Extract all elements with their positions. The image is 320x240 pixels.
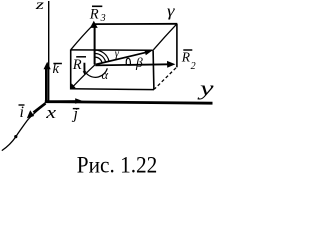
box edge BBR-FBR dashed — [154, 68, 176, 89]
unit vector j arrowhead — [75, 98, 83, 104]
svg-text:2: 2 — [191, 61, 196, 72]
beta angle mark — [126, 58, 130, 65]
svg-text:β: β — [135, 55, 143, 70]
svg-text:α: α — [102, 68, 109, 82]
j label bar — [73, 108, 80, 110]
svg-text:R: R — [181, 49, 191, 64]
box back top edge — [93, 23, 177, 25]
R1 label bar — [76, 56, 86, 58]
vector R1 line (BBL to FBL) — [72, 65, 95, 88]
vector R main diagonal shaft — [96, 52, 147, 64]
svg-text:y: y — [197, 76, 214, 100]
vector R arrowhead — [144, 50, 152, 56]
box front bottom edge — [70, 88, 154, 91]
vector R3 shaft — [94, 26, 96, 65]
vector R2 arrowhead — [167, 61, 175, 68]
svg-text:γ: γ — [167, 3, 175, 20]
R1 subscript arrow tip — [83, 71, 87, 75]
svg-text:x: x — [45, 103, 57, 122]
i label bar — [19, 104, 25, 106]
svg-text:j: j — [72, 106, 79, 123]
svg-text:i: i — [20, 104, 24, 121]
R3 label bar — [92, 5, 102, 7]
R1 subscript leader stroke — [83, 63, 85, 72]
svg-text:R: R — [89, 7, 99, 23]
z axis — [48, 1, 50, 102]
alpha angle arc — [86, 68, 107, 77]
box front right edge — [152, 50, 155, 89]
x axis — [2, 104, 46, 151]
R2 label bar — [183, 49, 192, 51]
box front left edge — [70, 50, 72, 89]
box edge BTL-FTL — [71, 24, 94, 49]
vector R3 arrowhead — [90, 21, 98, 28]
unit vector i shaft — [34, 103, 46, 112]
unit vector i arrowhead — [27, 110, 34, 118]
y axis — [45, 102, 213, 104]
unit vector k shaft — [45, 68, 48, 103]
box back right edge — [176, 24, 178, 68]
box edge BTR-FTR — [153, 24, 176, 50]
gamma angle arc outer — [95, 50, 109, 61]
k label bar — [53, 63, 62, 65]
unit vector k arrowhead — [44, 62, 51, 70]
vector R2 shaft — [95, 64, 168, 65]
box front top edge — [70, 49, 152, 51]
gamma angle arc middle — [95, 53, 106, 61]
x axis dot — [14, 135, 17, 138]
gamma angle arc inner — [95, 57, 102, 62]
vector R1 arrowhead — [70, 84, 76, 90]
svg-text:z: z — [34, 0, 45, 13]
svg-text:Рис. 1.22: Рис. 1.22 — [77, 153, 158, 178]
svg-text:k: k — [53, 61, 60, 77]
svg-text:R: R — [72, 57, 82, 73]
svg-text:3: 3 — [100, 13, 106, 24]
unit vector j shaft — [46, 100, 77, 103]
